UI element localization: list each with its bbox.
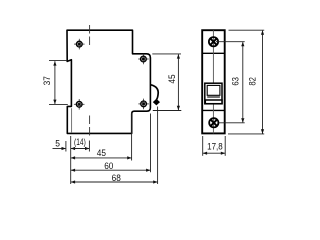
front screw bottom — [209, 118, 218, 127]
dim 63 line — [242, 42, 244, 122]
svg-text:5: 5 — [55, 138, 60, 149]
toggle outer — [205, 83, 222, 104]
svg-text:37: 37 — [41, 76, 52, 85]
svg-text:45: 45 — [166, 74, 177, 83]
front view body — [202, 30, 225, 133]
side view body outline — [67, 30, 150, 133]
toggle inner face — [207, 85, 220, 95]
screw terminal top-left — [74, 39, 85, 50]
dim 45 bottom line — [71, 157, 132, 159]
dim 37 line — [54, 61, 56, 104]
toggle lever knob diamond — [153, 99, 160, 106]
dim 68 line — [71, 181, 158, 183]
extension line front face — [150, 114, 152, 173]
extension line shoulder — [131, 113, 133, 161]
front bottom terminal line — [202, 109, 225, 111]
extension line body back — [70, 136, 72, 184]
screw terminal top-right — [138, 54, 149, 65]
svg-text:60: 60 — [104, 160, 113, 171]
svg-text:63: 63 — [230, 77, 241, 86]
svg-text:(14): (14) — [74, 137, 86, 147]
dim 17,8 extensions — [202, 136, 204, 156]
dim 82 extensions — [229, 29, 265, 31]
dashed center line bottom — [89, 116, 91, 138]
toggle bottom bar — [205, 100, 222, 104]
extension line lever tip — [157, 107, 159, 185]
dim 5 line — [53, 148, 66, 150]
din clip seam — [71, 108, 73, 133]
screw terminal bottom-right — [138, 99, 149, 110]
dim (14) line — [71, 148, 90, 150]
svg-text:17,8: 17,8 — [207, 141, 223, 152]
dim 17,8 line — [203, 152, 226, 154]
dim 37 extension ticks — [49, 60, 67, 62]
svg-text:68: 68 — [112, 173, 121, 184]
dim 63 extensions — [216, 41, 245, 43]
front top terminal line — [202, 52, 225, 54]
dim 45 vertical line — [177, 54, 179, 110]
front center line — [212, 30, 214, 133]
dim 60 line — [71, 169, 151, 171]
screw terminal bottom-left — [74, 99, 85, 110]
dim 45 vertical extensions — [152, 53, 181, 55]
toggle lever arc — [151, 85, 158, 100]
extension line clip left — [65, 141, 67, 152]
front screw top — [209, 37, 218, 46]
dim 82 line — [262, 31, 264, 134]
dashed center line top — [89, 25, 91, 48]
toggle face bottom edge — [207, 96, 220, 98]
svg-text:45: 45 — [97, 147, 106, 158]
svg-text:82: 82 — [247, 77, 258, 86]
extension line clip extended — [88, 141, 90, 152]
